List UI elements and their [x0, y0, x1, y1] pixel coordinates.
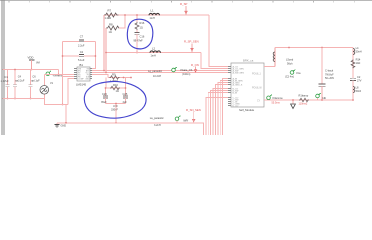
wire output bottom y=100: [264, 99, 353, 101]
svg-text:B_IN: B_IN: [233, 92, 238, 94]
svg-text:R_ON: R_ON: [191, 63, 199, 67]
svg-text:1mH: 1mH: [151, 55, 156, 58]
inductor La_parasitic labels: [150, 116, 165, 127]
svg-text:n.47uF: n.47uF: [1, 80, 9, 83]
svg-text:R_SP_SEN: R_SP_SEN: [184, 40, 199, 44]
capacitor C7: [78, 34, 85, 47]
svg-text:14Ω: 14Ω: [356, 62, 361, 65]
junction x62.5 on step wire: [62, 104, 64, 106]
svg-text:C16: C16: [140, 35, 145, 39]
wire op-amp row4 corner to R9 rail: [92, 75, 108, 78]
junction node on R9 rail: [123, 77, 125, 79]
svg-text:GND: GND: [61, 125, 67, 128]
svg-text:POU8_1: POU8_1: [252, 73, 262, 75]
wire step-down from bottom rail to ground bus: [44, 99, 68, 105]
svg-text:C6: C6: [32, 74, 36, 78]
wire top rail y=47.5: [275, 47, 353, 49]
svg-text:99.47nF: 99.47nF: [134, 39, 144, 42]
svg-text:R1kamp: R1kamp: [299, 93, 309, 97]
svg-text:5C+30V: 5C+30V: [325, 77, 334, 80]
junction C_back on output wire: [321, 99, 323, 101]
ground arrow mid: [291, 99, 296, 108]
svg-text:R7: R7: [108, 8, 112, 12]
wire link right x=131: [125, 78, 127, 89]
wire rail corner to op-amp pin row: [58, 70, 60, 75]
wire bottom rail y=100: [3, 98, 45, 100]
wire op-amp row1 riser to W2: [92, 42, 95, 69]
capacitor C26: [101, 87, 108, 104]
probe VGate_Ob: [172, 67, 193, 76]
junction ladder right on C2 branch: [95, 55, 97, 57]
svg-text:R16: R16: [140, 21, 145, 25]
svg-text:C2: C2: [80, 50, 84, 54]
wire riser x=106 from R8 down through W2 to op-amp wire: [105, 28, 107, 73]
svg-text:1Ω: 1Ω: [140, 27, 143, 30]
snubber branch: capacitor C16: [134, 30, 145, 53]
wire riser x=104 from W1 down to op-amp wire: [103, 15, 105, 71]
ground GND at bus end: [54, 123, 66, 128]
capacitor C6: [28, 70, 40, 100]
svg-text:1Ω: 1Ω: [109, 31, 112, 34]
svg-text:(C2 4m): (C2 4m): [285, 76, 294, 79]
op-amp inner pin labels: [78, 68, 90, 80]
svg-text:IbRf: IbRf: [183, 118, 188, 122]
snubber branch: resistor R16: [135, 14, 145, 30]
capacitor C_back: [319, 48, 335, 101]
IC U2 half_Module box: [231, 58, 264, 112]
junction ladder left on C2 branch: [62, 55, 64, 57]
svg-text:COMP: COMP: [78, 78, 84, 80]
sheet top border ruler ticks: [9, 0, 354, 2]
wire to op-amp pin row 4: [44, 74, 74, 76]
svg-text:VDD: VDD: [28, 56, 34, 60]
svg-text:C2: C2: [357, 75, 361, 79]
junction step wire on ground bus: [65, 122, 67, 124]
wire W1 switch-node y=15: [104, 14, 209, 16]
svg-text:R8: R8: [109, 23, 113, 27]
wire rail Hb y=88: [106, 87, 126, 89]
wire ladder bottom branch y=56: [63, 55, 79, 57]
svg-text:L5ond: L5ond: [286, 58, 294, 62]
svg-text:R_SN_SEN: R_SN_SEN: [186, 108, 201, 112]
wire link left x=106: [105, 78, 107, 89]
wire op-amp pin row 6 down to bottom rail: [68, 79, 74, 105]
svg-text:aa3.2uF: aa3.2uF: [15, 80, 25, 83]
junction C_back tap on top rail: [321, 47, 323, 49]
svg-text:2.2uF: 2.2uF: [78, 44, 85, 47]
svg-text:LM5145: LM5145: [76, 82, 87, 86]
svg-text:10.2nH: 10.2nH: [153, 75, 161, 78]
junction rail drop on Vreflex wire: [58, 74, 60, 76]
svg-text:C-back: C-back: [325, 69, 334, 73]
svg-text:La_parasitic: La_parasitic: [150, 116, 165, 120]
svg-text:GND: GND: [85, 78, 90, 80]
wire rail Ha y=77.5: [108, 77, 131, 79]
svg-text:B1: B1: [80, 63, 84, 67]
svg-text:27V: 27V: [357, 79, 362, 82]
svg-text:C1: C1: [5, 75, 9, 79]
wire op-amp row2 long to IC: [92, 70, 230, 72]
svg-text:C7: C7: [80, 34, 84, 38]
svg-text:L1: L1: [151, 9, 155, 13]
net connector R_SN_SEN: [186, 108, 201, 123]
op-amp U (B1 LM5145) box: [76, 63, 90, 86]
svg-text:1mH: 1mH: [150, 17, 155, 20]
svg-text:(C24m): (C24m): [182, 73, 191, 76]
svg-text:Lg_parasitic: Lg_parasitic: [148, 69, 163, 73]
junction riser x104 on op-amp wire: [103, 70, 105, 72]
inductor L1: [149, 9, 160, 20]
probe IbRf: [175, 116, 188, 123]
svg-text:1Ω: 1Ω: [116, 90, 119, 93]
svg-text:half_Module: half_Module: [239, 108, 255, 112]
op-amp pin stubs left: [74, 69, 77, 79]
svg-text:R14: R14: [356, 58, 361, 62]
op-amp pin stubs right: [90, 69, 92, 79]
net connector R_SP: [180, 2, 187, 15]
svg-text:VGate_Ob: VGate_Ob: [180, 68, 193, 72]
IC left inner pin labels: [233, 65, 245, 107]
svg-text:Vca: Vca: [296, 71, 301, 75]
svg-text:3.2nH: 3.2nH: [154, 124, 161, 127]
capacitor C25: [123, 87, 129, 104]
svg-text:CY: CY: [257, 100, 261, 102]
wire W2 sense line y=52.5: [106, 52, 201, 54]
inductor L8: [353, 86, 362, 94]
svg-text:A_SW_SEN: A_SW_SEN: [233, 71, 245, 74]
junction L5ond tap on top rail: [288, 47, 290, 49]
svg-text:1.2kΩ: 1.2kΩ: [105, 17, 112, 20]
resistor R9: [110, 73, 120, 84]
svg-text:50nh: 50nh: [356, 90, 362, 93]
net connector R_SP_SEN: [184, 40, 199, 53]
wire staircase IC pins to off-screen bottom: [206, 79, 228, 136]
net connector R_ON: [191, 63, 199, 73]
svg-text:Idb: Idb: [323, 96, 327, 100]
svg-text:apl.1uF: apl.1uF: [31, 80, 40, 83]
svg-text:55.5ms: 55.5ms: [272, 102, 281, 105]
capacitor C27: [350, 75, 362, 83]
probe Vca: [285, 69, 301, 78]
resistor R10: [110, 83, 120, 93]
junction output chain bottom: [352, 99, 354, 101]
wire R8 right lead up to W1: [119, 15, 125, 28]
net connector VDD T-bar: [29, 59, 35, 61]
svg-text:D_CO: D_CO: [233, 105, 239, 107]
annotation ellipse 2: [84, 81, 146, 118]
probe +Vreflex: [46, 71, 63, 78]
inductor L2: [150, 46, 161, 57]
svg-text:110ms2: 110ms2: [299, 103, 308, 106]
annotation ellipse 1: [127, 19, 153, 49]
resistor R8: [106, 23, 120, 34]
svg-text:VM: VM: [36, 61, 40, 64]
svg-text:50nH: 50nH: [356, 51, 362, 54]
svg-text:5.1uF: 5.1uF: [78, 59, 85, 62]
capacitor C2: [78, 50, 85, 62]
svg-text:330uF: 330uF: [111, 108, 119, 111]
wire IC right top pin to riser: [264, 66, 275, 68]
svg-text:7W.8uF: 7W.8uF: [325, 73, 334, 76]
sheet left border: [2, 0, 4, 135]
probe IKlamme: [267, 95, 284, 105]
wire chain top corner: [352, 48, 354, 101]
wire rail Hc y=104.5: [106, 103, 126, 105]
IC right inner pin labels: [252, 73, 263, 102]
IC left pin stubs: [228, 67, 231, 106]
inductor Lg_parasitic labels: [148, 69, 163, 78]
probe Idb: [316, 93, 327, 100]
wire ground bus y=123.5: [57, 123, 203, 135]
svg-text:C25: C25: [123, 92, 128, 96]
svg-text:C26: C26: [102, 92, 107, 96]
svg-text:POU8_W: POU8_W: [252, 87, 263, 89]
junction W2 riser: [105, 52, 107, 54]
resistor Rklamp: [299, 93, 310, 105]
svg-text:C4: C4: [18, 74, 22, 78]
wire riser x=275 with inductor to top rail: [274, 48, 276, 67]
inductor L5ond: [273, 52, 294, 65]
svg-text:IKlamme: IKlamme: [273, 96, 284, 100]
wire W2 corner down to IC pin 2: [201, 53, 230, 69]
resistor R7: [104, 8, 118, 20]
svg-text:L2: L2: [152, 46, 156, 50]
junction riser x106 on op-amp wire: [105, 72, 107, 74]
svg-text:BRK_ca: BRK_ca: [243, 58, 254, 62]
sheet top border: [0, 0, 372, 2]
wire op-amp pin row 5 down to bottom rail: [63, 76, 75, 78]
capacitor C1: [1, 70, 10, 100]
svg-text:A_GND_S: A_GND_S: [233, 83, 243, 86]
wire drop to ground bus x=118: [115, 104, 117, 123]
voltage source V1: [40, 75, 54, 99]
resistor R14: [351, 58, 361, 69]
wire ladder top branch y=41.5: [63, 41, 79, 43]
inductor L4: [353, 46, 362, 55]
wire W1 corner down to IC pin 1: [209, 15, 230, 67]
svg-text:R_SP: R_SP: [180, 2, 187, 6]
junction R8/W1: [124, 14, 126, 16]
svg-text:56uh: 56uh: [287, 62, 293, 65]
wire op-amp row3 long to IC: [92, 72, 230, 74]
junction R9 rail end: [130, 77, 132, 79]
capacitor C4: [13, 69, 25, 100]
wire VDD rail y=65: [3, 69, 59, 71]
